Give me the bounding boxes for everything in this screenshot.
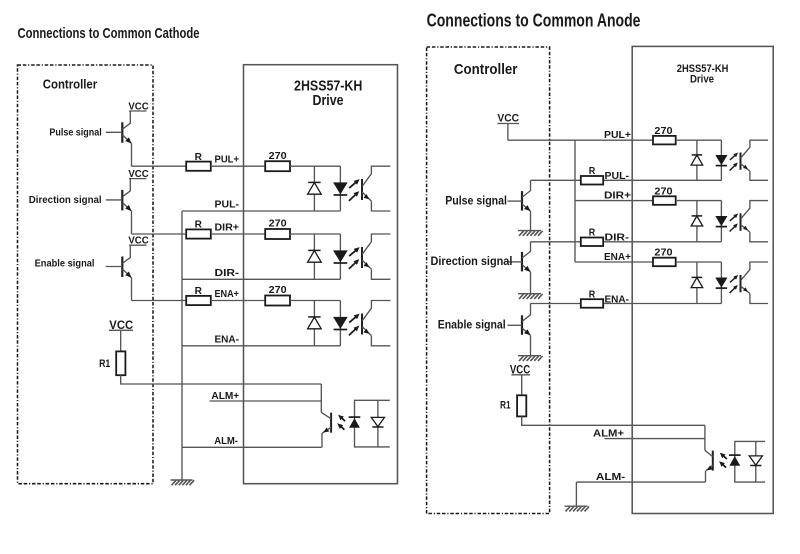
svg-text:R: R <box>589 289 596 300</box>
wire PUL+ mid segment <box>211 165 265 167</box>
wire PUL+ left segment <box>132 165 187 167</box>
wire VCC to R1 <box>120 330 122 351</box>
svg-text:Pulse signal: Pulse signal <box>49 127 102 138</box>
ground (Pulse signal) <box>518 230 541 232</box>
optocoupler phototransistor (DIR right) <box>740 213 742 230</box>
wire VCC to R1 (right) <box>521 375 523 396</box>
ground (Enable signal) <box>518 355 541 357</box>
alarm LED (left) <box>349 418 360 428</box>
resistor R (DIR- right) <box>581 238 603 247</box>
svg-text:R1: R1 <box>500 399 511 411</box>
wire ALM- segment (right) <box>576 481 705 483</box>
wire ENA- segment <box>182 345 340 347</box>
wire PUL- segment (right) <box>531 179 722 181</box>
wire ENA+ to LED <box>290 300 340 302</box>
wire DIR+ left segment <box>132 233 187 235</box>
svg-text:ALM+: ALM+ <box>211 391 239 402</box>
wire DIR+ to LED <box>290 233 340 235</box>
wire ENA+ left segment <box>132 300 187 302</box>
drive box right <box>632 46 773 513</box>
clamp diode (PUL) <box>313 166 315 211</box>
wire DIR+ feed <box>575 200 653 202</box>
wire DIR+ mid segment <box>211 233 265 235</box>
svg-text:Enable signal: Enable signal <box>438 318 506 332</box>
svg-text:VCC: VCC <box>497 113 519 125</box>
svg-text:Drive: Drive <box>690 74 714 86</box>
svg-text:Controller: Controller <box>43 78 97 92</box>
wire R1 to ALM node <box>121 375 322 384</box>
VCC distribution bus <box>574 140 576 262</box>
wire PUL+ to LED (right) <box>676 139 722 141</box>
transistor (Pulse signal) <box>521 191 523 211</box>
svg-text:R: R <box>589 228 596 239</box>
common cathode return wire <box>181 211 183 480</box>
optocoupler phototransistor (ENA) <box>361 314 363 335</box>
svg-text:Direction signal: Direction signal <box>29 195 102 206</box>
svg-text:270: 270 <box>269 151 287 162</box>
clamp diode (PUL right) <box>696 140 698 180</box>
svg-text:R1: R1 <box>99 358 111 370</box>
ground (controller common) <box>171 479 193 481</box>
resistor R (PUL- right) <box>581 176 603 185</box>
optocoupler LED (ENA) <box>339 301 341 346</box>
optocoupler phototransistor (DIR) <box>361 247 363 268</box>
alarm phototransistor (left) <box>330 413 332 433</box>
svg-text:R: R <box>589 166 596 177</box>
svg-text:R: R <box>195 286 203 297</box>
svg-text:270: 270 <box>654 248 673 259</box>
ground (ALM- right) <box>565 505 588 507</box>
optocoupler LED (PUL) <box>339 166 341 211</box>
alarm diode (left) <box>377 400 379 447</box>
wire ALM+ stub (right) <box>605 438 705 440</box>
wire ALM- to ground <box>575 482 577 506</box>
alarm LED (right) <box>729 456 740 466</box>
svg-text:270: 270 <box>654 186 673 197</box>
ground (Direction signal) <box>518 293 541 295</box>
resistor R1 (right) <box>517 395 526 416</box>
transistor Q2 <box>121 190 123 211</box>
resistor 270 (DIR right) <box>653 196 676 205</box>
resistor R1 <box>116 351 125 375</box>
svg-text:ALM+: ALM+ <box>593 428 624 439</box>
wire ENA- segment (right) <box>531 303 722 305</box>
wire PUL+ to LED <box>290 165 340 167</box>
wire ALM node vertical (right) <box>704 425 706 450</box>
svg-text:ENA-: ENA- <box>215 334 240 345</box>
resistor R (DIR+) <box>186 229 211 238</box>
svg-text:R: R <box>195 220 203 231</box>
wire ALM node vertical <box>320 384 322 412</box>
clamp diode (DIR) <box>313 234 315 279</box>
resistor 270 (ENA) <box>265 296 290 306</box>
wire VCC down <box>507 124 509 141</box>
transistor Q3 <box>121 257 123 278</box>
wire ENA+ mid segment <box>211 300 265 302</box>
resistor 270 (PUL right) <box>653 136 676 145</box>
wire ENA+ feed <box>575 261 653 263</box>
svg-text:270: 270 <box>269 285 287 296</box>
svg-text:DIR-: DIR- <box>605 233 630 244</box>
wire Q2 emitter to DIR+ row <box>131 211 133 234</box>
alarm diode (right) <box>755 441 757 482</box>
svg-text:ENA-: ENA- <box>605 294 630 305</box>
optocoupler LED (DIR) <box>339 234 341 279</box>
svg-text:DIR-: DIR- <box>215 268 240 279</box>
resistor 270 (PUL) <box>265 161 290 171</box>
svg-text:Connections to Common Anode: Connections to Common Anode <box>427 10 641 30</box>
transistor (Direction signal) <box>521 252 523 272</box>
svg-text:PUL-: PUL- <box>605 171 630 182</box>
svg-text:ENA+: ENA+ <box>215 289 240 300</box>
wire PUL+ feed <box>508 139 653 141</box>
svg-text:DIR+: DIR+ <box>604 191 631 202</box>
wire DIR- segment <box>182 278 340 280</box>
optocoupler phototransistor (ENA right) <box>740 275 742 292</box>
wire ENA+ to LED (right) <box>676 261 722 263</box>
transistor Q1 <box>121 122 123 143</box>
optocoupler phototransistor (PUL) <box>361 179 363 200</box>
svg-text:DIR+: DIR+ <box>215 222 240 233</box>
wire ALM+ stub <box>210 400 322 402</box>
wire Q1 emitter to PUL+ row <box>131 144 133 167</box>
optocoupler LED (PUL right) <box>720 140 722 180</box>
svg-text:Enable signal: Enable signal <box>35 258 95 269</box>
wire PUL- segment <box>182 210 340 212</box>
svg-text:PUL+: PUL+ <box>604 130 631 141</box>
svg-text:Controller: Controller <box>454 62 518 78</box>
svg-text:Drive: Drive <box>313 92 344 109</box>
wire ALM- segment <box>182 446 322 448</box>
svg-text:ENA+: ENA+ <box>604 252 631 263</box>
alarm phototransistor (right) <box>712 451 714 471</box>
resistor 270 (ENA right) <box>653 258 676 267</box>
drive box 2HSS57-KH <box>244 65 398 484</box>
svg-text:R: R <box>195 152 203 163</box>
clamp diode (DIR right) <box>696 201 698 242</box>
alarm LED pair rails (right) <box>735 441 765 482</box>
resistor R (PUL+) <box>186 162 211 171</box>
svg-text:PUL-: PUL- <box>215 200 240 211</box>
wire DIR+ to LED (right) <box>676 200 722 202</box>
resistor R (ENA+) <box>186 296 211 305</box>
wire R1 to ALM node (right) <box>522 416 705 425</box>
wire Q3 emitter to ENA+ row <box>131 278 133 301</box>
clamp diode (ENA right) <box>696 262 698 304</box>
svg-text:ALM-: ALM- <box>596 472 626 483</box>
svg-text:Pulse signal: Pulse signal <box>445 193 507 207</box>
svg-text:270: 270 <box>654 126 673 137</box>
controller box (dashed) <box>18 65 154 484</box>
optocoupler LED (DIR right) <box>720 201 722 242</box>
optocoupler phototransistor (PUL right) <box>740 153 742 170</box>
svg-text:270: 270 <box>269 219 287 230</box>
resistor R (ENA- right) <box>581 299 603 308</box>
resistor 270 (DIR) <box>265 229 290 239</box>
wire DIR- segment (right) <box>531 241 722 243</box>
svg-text:Connections to Common Cathode: Connections to Common Cathode <box>18 26 200 42</box>
transistor (Enable signal) <box>521 315 523 335</box>
svg-text:Direction signal: Direction signal <box>431 254 513 268</box>
controller box right (dashed) <box>427 47 550 514</box>
svg-text:ALM-: ALM- <box>214 436 238 447</box>
clamp diode (ENA) <box>313 301 315 346</box>
optocoupler LED (ENA right) <box>720 262 722 304</box>
svg-text:PUL+: PUL+ <box>215 155 240 166</box>
alarm LED pair rails (left) <box>355 400 390 447</box>
